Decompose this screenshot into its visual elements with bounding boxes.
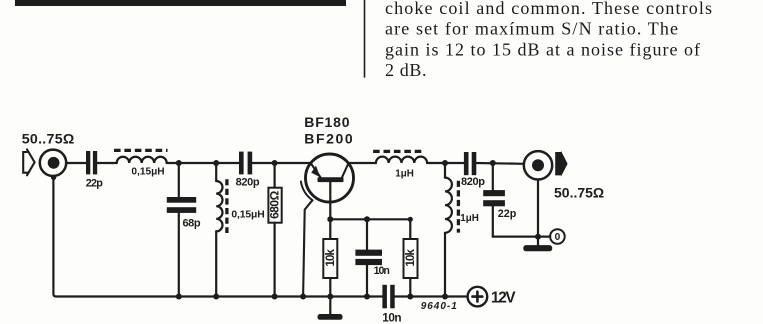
svg-text:9640-1: 9640-1 xyxy=(421,301,458,312)
base lead down xyxy=(329,182,331,219)
wire connector down xyxy=(537,180,539,237)
svg-text:0,15μH: 0,15μH xyxy=(131,167,164,178)
node B (L2 branch) xyxy=(213,160,219,166)
corner node right 10k xyxy=(408,217,413,222)
emitter lead with arrow xyxy=(311,164,320,177)
node C (680 ohm branch) xyxy=(272,160,278,166)
transistor T1 BF180/BF200 xyxy=(306,154,354,202)
shield dashed line over L1 xyxy=(114,149,168,152)
node 680 on rail xyxy=(272,294,278,300)
svg-text:0: 0 xyxy=(555,232,561,243)
node 10k right on rail xyxy=(407,294,413,300)
inductor 1uH L4 (vertical) xyxy=(444,163,446,178)
svg-text:10k: 10k xyxy=(405,249,417,267)
wire input connector to C 22p xyxy=(66,162,86,164)
node 10n branch xyxy=(364,216,370,222)
wire node A down to 68p xyxy=(178,163,180,197)
wire node B to C 820p xyxy=(216,162,239,164)
output arrow xyxy=(555,151,567,177)
node G xyxy=(535,234,541,240)
ground symbol below rail xyxy=(329,297,331,315)
shield dashed line right of L4 xyxy=(457,181,460,233)
top black bar xyxy=(15,0,346,6)
node F (22p branch) xyxy=(490,160,496,166)
svg-text:68p: 68p xyxy=(183,218,201,230)
node L4 on rail xyxy=(442,294,448,300)
shield/emitter ground lead xyxy=(303,201,312,297)
svg-text:10n: 10n xyxy=(374,265,390,277)
resistor 680 ohm xyxy=(274,163,276,188)
base bar xyxy=(318,177,344,182)
node A (68p branch) xyxy=(176,160,182,166)
capacitor 10n (supply decoupling, series in rail) xyxy=(382,285,387,309)
resistor 10k (left) xyxy=(329,219,331,239)
wire L3 to node E xyxy=(427,162,464,164)
svg-text:BF200: BF200 xyxy=(304,130,354,146)
wire 820p out to connector xyxy=(476,162,524,165)
svg-text:22p: 22p xyxy=(86,177,104,189)
inductor 0,15uH L1 (horizontal) xyxy=(117,157,167,163)
wire base node to right xyxy=(330,218,410,220)
svg-text:2 dB.: 2 dB. xyxy=(385,60,427,80)
terminal 0 xyxy=(550,229,565,244)
wire L1 to node A xyxy=(167,162,217,164)
collector lead xyxy=(342,164,348,177)
svg-text:50..75Ω: 50..75Ω xyxy=(554,184,604,200)
svg-text:50..75Ω: 50..75Ω xyxy=(22,132,75,148)
svg-text:gain is 12 to 15 dB at a noise: gain is 12 to 15 dB at a noise figure of xyxy=(385,39,700,59)
svg-text:0,15μH: 0,15μH xyxy=(231,210,264,221)
node L2 on rail xyxy=(213,294,219,300)
svg-text:680Ω: 680Ω xyxy=(267,190,281,219)
capacitor 820p (interstage, series) xyxy=(239,152,244,175)
node below input connector xyxy=(51,175,56,180)
ground symbol output xyxy=(537,237,539,246)
capacitor 820p (output, series) xyxy=(464,152,469,175)
node E (L4 branch) xyxy=(442,160,448,166)
bottom supply rail (right section) xyxy=(395,295,468,297)
shield dashed line over L3 xyxy=(373,150,424,153)
node 10k left on rail xyxy=(327,294,333,300)
svg-text:820p: 820p xyxy=(236,177,260,189)
bottom ground rail (left section) xyxy=(53,177,382,297)
shield arc of transistor xyxy=(301,182,313,201)
wire 820p to transistor xyxy=(252,162,311,164)
wire 68p to ground rail xyxy=(178,213,180,297)
svg-text:12V: 12V xyxy=(491,289,516,306)
inductor 1uH L3 (horizontal) xyxy=(376,157,427,163)
inductor 0,15uH L2 (vertical) xyxy=(215,163,217,181)
svg-text:choke coil and common. These c: choke coil and common. These controls xyxy=(385,0,712,18)
capacitor 10n (base decoupling) xyxy=(366,219,368,249)
resistor 10k (right) xyxy=(409,219,411,239)
label BF180 BF200 xyxy=(304,114,354,147)
capacitor 22p (input, series) xyxy=(86,151,90,174)
svg-text:22p: 22p xyxy=(498,208,517,220)
svg-text:BF180: BF180 xyxy=(304,114,350,130)
column rule xyxy=(364,0,366,77)
svg-text:10n: 10n xyxy=(382,311,401,324)
connector input J1 xyxy=(40,150,66,176)
node emitter on rail xyxy=(300,294,306,300)
wire transistor collector to L3 xyxy=(348,162,376,164)
node 10n on rail xyxy=(364,294,370,300)
shield dashed line right of L2 xyxy=(225,179,228,233)
wire 22p to 0-terminal xyxy=(493,236,550,238)
svg-text:820p: 820p xyxy=(461,176,485,188)
node 68p on rail xyxy=(176,294,182,300)
input arrow xyxy=(23,149,34,175)
capacitor 22p (output) xyxy=(492,163,494,190)
paragraph text column xyxy=(385,0,712,80)
svg-text:1μH: 1μH xyxy=(395,168,414,179)
svg-text:1μH: 1μH xyxy=(460,213,479,224)
svg-text:10k: 10k xyxy=(325,249,337,267)
supply terminal +12V xyxy=(468,287,488,307)
wire C22p to L1 xyxy=(97,162,117,164)
connector output J2 xyxy=(524,151,552,179)
capacitor 68p xyxy=(167,197,196,203)
base node D xyxy=(327,216,333,222)
svg-text:are set for maxímum S/N ratio.: are set for maxímum S/N ratio. The xyxy=(385,19,678,39)
